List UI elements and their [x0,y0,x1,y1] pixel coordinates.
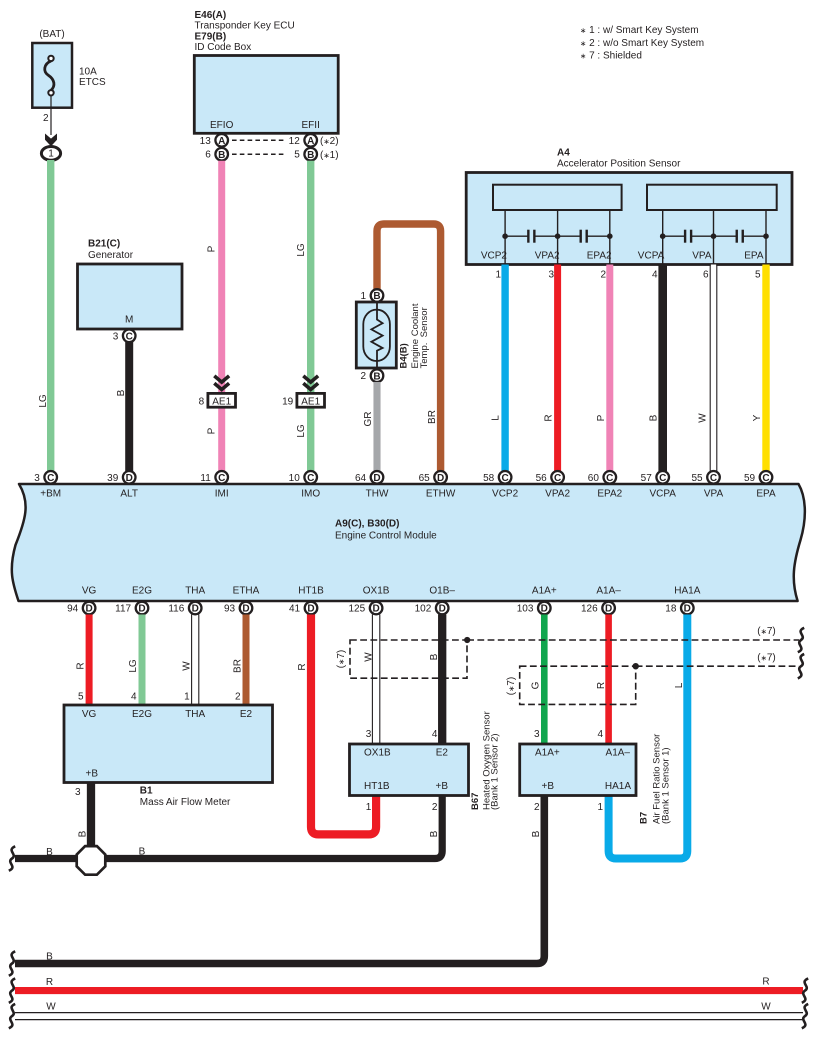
svg-text:Generator: Generator [88,250,134,261]
svg-text:Engine Control Module: Engine Control Module [335,531,437,542]
E46 pin 12(A) (*2) [289,134,317,147]
svg-text:5: 5 [78,692,84,703]
svg-text:125: 125 [349,604,366,615]
A4 Accelerator Position Sensor [466,148,792,265]
svg-text:OX1B: OX1B [364,748,391,759]
svg-text:64: 64 [355,473,367,484]
svg-text:B1: B1 [140,786,153,797]
wire R VG [86,615,93,706]
svg-text:B21(C): B21(C) [88,239,120,250]
svg-text:102: 102 [415,604,432,615]
svg-text:B: B [373,371,380,382]
wire R HT1B to B67 [311,615,376,835]
svg-text:B: B [139,847,146,858]
svg-text:93: 93 [224,604,236,615]
svg-text:BR: BR [232,659,243,673]
svg-text:3: 3 [548,270,554,281]
svg-text:65: 65 [419,473,431,484]
svg-text:Mass Air Flow Meter: Mass Air Flow Meter [140,797,231,808]
svg-text:3: 3 [366,729,372,740]
svg-text:57: 57 [641,473,653,484]
svg-text:GR: GR [363,412,374,427]
svg-text:VG: VG [82,586,97,597]
svg-text:(∗7): (∗7) [757,626,776,637]
svg-text:L: L [674,682,685,688]
svg-text:+B: +B [435,781,448,792]
ECM bottom pin 126(D) A1A&#8211; [581,586,621,615]
svg-text:60: 60 [588,473,600,484]
svg-text:A4: A4 [557,148,570,159]
A4 taps group 2 [660,210,769,265]
B21(C) Generator [78,239,183,330]
A4 pin names [481,251,764,262]
svg-text:1: 1 [366,802,372,813]
wire R VPA2 [554,265,561,472]
wire LG E2G [139,615,146,706]
svg-text:W: W [698,413,709,423]
break symbol right shield line 1 [798,628,804,652]
svg-text:56: 56 [536,473,548,484]
svg-text:19: 19 [282,396,294,407]
svg-text:Y: Y [752,414,763,421]
Engine Control Module A9(C),B30(D) band [12,484,805,601]
svg-text:58: 58 [483,473,495,484]
svg-text:3: 3 [534,729,540,740]
svg-text:D: D [242,604,249,615]
svg-text:R: R [596,682,607,689]
svg-text:D: D [126,473,133,484]
svg-text:D: D [541,604,548,615]
svg-text:B: B [307,150,314,161]
shield junction dot 2 [633,663,639,669]
svg-text:1: 1 [495,270,501,281]
ECM bottom pin 93(D) ETHA [224,586,260,615]
svg-text:A: A [218,136,225,147]
svg-text:(∗7): (∗7) [336,650,347,669]
svg-text:B: B [218,150,225,161]
svg-text:C: C [554,473,561,484]
svg-text:4: 4 [652,270,658,281]
wire BR B4 pin1 to ECM ETHW [377,224,441,472]
wire G A1A+ to B7 [541,615,548,745]
svg-text:O1B–: O1B– [429,586,455,597]
svg-text:E2G: E2G [132,586,152,597]
svg-text:IMI: IMI [215,489,229,500]
ECM bottom pin 103(D) A1A+ [517,586,557,615]
svg-text:4: 4 [131,692,137,703]
svg-text:(∗7): (∗7) [757,653,776,664]
wire R bottom bus [15,987,803,994]
shield dashed line 2 to right [636,665,799,667]
break symbol left R bus [9,978,15,1002]
svg-text:1: 1 [184,692,190,703]
svg-text:+BM: +BM [40,489,61,500]
svg-text:HA1A: HA1A [674,586,700,597]
svg-text:117: 117 [115,604,131,615]
wire R A1A- to B7 [605,615,612,745]
junction octagon [77,846,106,875]
svg-text:B: B [429,830,440,837]
svg-text:EPA: EPA [744,251,764,262]
svg-text:3: 3 [75,787,81,798]
B4 pin 2(B) [361,369,384,382]
svg-text:D: D [192,604,199,615]
svg-text:AE1: AE1 [212,396,231,407]
svg-text:ETCS: ETCS [79,77,106,88]
ECM top pin 3(C) +BM [34,471,61,500]
break symbol left W bus [9,1004,15,1028]
svg-text:D: D [437,473,444,484]
svg-text:VPA2: VPA2 [545,489,570,500]
svg-text:39: 39 [107,473,119,484]
svg-text:W: W [364,652,375,662]
B67 Heated Oxygen Sensor (Bank 1 Sensor 2) [350,711,501,813]
svg-text:EPA2: EPA2 [597,489,622,500]
svg-text:B: B [116,389,127,396]
shield (*7) box around G/R wires [520,666,636,704]
E46 pin 5(B) (*1) [294,148,317,161]
svg-text:VPA: VPA [692,251,712,262]
shield junction dot 1 [464,637,470,643]
svg-text:E2: E2 [436,748,449,759]
svg-text:W: W [181,661,192,671]
legend notes [580,25,704,61]
svg-text:EPA: EPA [756,489,776,500]
svg-text:A1A+: A1A+ [532,586,557,597]
svg-text:8: 8 [199,396,205,407]
break symbol right W bus [802,1004,808,1028]
svg-text:1: 1 [48,149,54,160]
E46 pin 13(A) [200,134,228,147]
wire B B7 +B to ground bus 2 [15,796,544,964]
svg-text:P: P [207,427,218,434]
ECM bottom pin 117(D) E2G [115,586,152,615]
ECM top pin 39(D) ALT [107,471,138,500]
svg-text:18: 18 [665,604,677,615]
svg-text:B: B [648,414,659,421]
svg-text:THW: THW [366,489,389,500]
svg-text:R: R [544,414,555,421]
wire W bottom bus [15,1013,803,1020]
ECM top pin 11(C) IMI [200,471,228,500]
ECM bottom pin 41(D) HT1B [289,586,324,615]
svg-text:Accelerator Position Sensor: Accelerator Position Sensor [557,159,681,170]
svg-text:P: P [207,245,218,252]
svg-text:2: 2 [361,371,367,382]
svg-text:(Bank 1 Sensor 2): (Bank 1 Sensor 2) [490,733,501,810]
svg-text:W: W [46,1002,56,1013]
svg-text:10A: 10A [79,67,97,78]
svg-text:2: 2 [432,802,438,813]
ECM bottom pin 102(D) O1B&#8211; [415,586,456,615]
svg-text:2: 2 [43,113,49,124]
ECM top pin 65(D) ETHW [419,471,456,500]
svg-text:E2G: E2G [132,709,152,720]
svg-text:B: B [46,847,53,858]
dashed link row A [232,139,287,141]
svg-text:6: 6 [703,270,709,281]
wire L VCP2 [501,265,508,472]
svg-text:C: C [501,473,508,484]
wire W THA [192,615,199,706]
svg-text:E2: E2 [240,709,253,720]
wire LG fuse to ECM +BM [47,160,54,472]
svg-text:EFIO: EFIO [210,120,234,131]
svg-text:D: D [373,473,380,484]
svg-text:EFII: EFII [302,120,320,131]
svg-text:ETHA: ETHA [233,586,260,597]
svg-text:B: B [531,830,542,837]
svg-text:Transponder Key ECU: Transponder Key ECU [195,21,295,32]
svg-text:EPA2: EPA2 [587,251,612,262]
svg-text:C: C [606,473,613,484]
svg-text:∗ 2 : w/o Smart Key System: ∗ 2 : w/o Smart Key System [580,38,704,49]
svg-text:(∗7): (∗7) [506,677,517,696]
svg-text:HA1A: HA1A [605,781,631,792]
ECM top pin 60(C) EPA2 [588,471,623,500]
svg-text:C: C [762,473,769,484]
ECM top pin 64(D) THW [355,471,389,500]
svg-text:(BAT): (BAT) [39,29,64,40]
B4(B) Engine Coolant Temp. Sensor [356,302,430,369]
ECM bottom pin 18(D) HA1A [665,586,700,615]
svg-text:2: 2 [534,802,540,813]
connector 8 AE1 [199,393,236,407]
svg-text:12: 12 [289,136,301,147]
svg-text:VCP2: VCP2 [481,251,508,262]
svg-text:D: D [138,604,145,615]
svg-text:(Bank 1 Sensor 1): (Bank 1 Sensor 1) [660,747,671,824]
ECM top pin 55(C) VPA [691,471,723,500]
svg-text:VPA: VPA [704,489,724,500]
svg-text:D: D [85,604,92,615]
svg-text:VPA2: VPA2 [535,251,560,262]
svg-text:HT1B: HT1B [298,586,324,597]
svg-text:ID Code Box: ID Code Box [195,42,252,53]
ECM bottom pin 94(D) VG [67,586,96,615]
svg-text:E46(A): E46(A) [195,10,227,21]
svg-text:(∗2): (∗2) [320,136,339,147]
svg-text:C: C [659,473,666,484]
svg-text:B4(B): B4(B) [398,343,409,368]
svg-text:W: W [761,1002,771,1013]
svg-text:5: 5 [294,150,300,161]
break symbol left bus2 [9,951,15,975]
svg-text:ETHW: ETHW [426,489,456,500]
ECM top pin 59(C) EPA [744,471,776,500]
svg-text:L: L [491,415,502,421]
ECM top pin 57(C) VCPA [641,471,677,500]
wire Y EPA [762,265,769,472]
break symbol right R bus [802,978,808,1002]
svg-text:2: 2 [235,692,241,703]
junction arrow chevron above AE1 (19) [303,376,318,390]
svg-text:C: C [307,473,314,484]
svg-text:BR: BR [427,410,438,424]
svg-text:41: 41 [289,604,301,615]
svg-text:R: R [762,977,769,988]
svg-text:3: 3 [113,331,119,342]
svg-text:C: C [710,473,717,484]
svg-text:55: 55 [691,473,703,484]
svg-text:A: A [307,136,314,147]
svg-text:2: 2 [600,270,606,281]
svg-text:4: 4 [597,729,603,740]
A4 taps group 1 [502,210,612,265]
svg-text:+B: +B [86,769,99,780]
break symbol right shield line 2 [798,654,804,678]
svg-text:A1A–: A1A– [596,586,621,597]
svg-text:D: D [439,604,446,615]
wire B ground bus via junction to B67 +B [15,796,442,859]
svg-text:3: 3 [34,473,40,484]
svg-text:B: B [46,952,53,963]
svg-text:B: B [429,653,440,660]
shield (*7) box around W/B wires [350,640,467,678]
svg-text:D: D [605,604,612,615]
node 1 ellipse [41,147,60,161]
svg-text:LG: LG [296,243,307,257]
ECM top pin 58(C) VCP2 [483,471,519,500]
svg-text:5: 5 [755,270,761,281]
svg-text:HT1B: HT1B [364,781,390,792]
svg-text:AE1: AE1 [301,396,320,407]
wire W VPA [710,265,717,472]
svg-text:1: 1 [597,802,603,813]
shield dashed line 1 to right [467,639,799,641]
svg-text:VG: VG [82,709,97,720]
svg-text:B: B [78,830,89,837]
svg-text:Temp. Sensor: Temp. Sensor [419,307,430,368]
svg-text:B67: B67 [470,793,481,810]
A4 pin numbers [495,270,761,281]
ECM top pin 56(C) VPA2 [536,471,571,500]
B4 pin 1(B) [361,289,384,302]
svg-text:(∗1): (∗1) [320,150,339,161]
svg-text:C: C [47,473,54,484]
svg-text:B7: B7 [639,812,650,824]
svg-text:THA: THA [185,709,205,720]
wire B VCPA [658,265,667,472]
svg-text:E79(B): E79(B) [195,31,227,42]
svg-text:D: D [307,604,314,615]
B7 Air Fuel Ratio Sensor (Bank 1 Sensor 1) [520,729,672,824]
wire P E46 EFIO to AE1 [218,161,225,394]
svg-text:B: B [373,291,380,302]
svg-text:OX1B: OX1B [363,586,390,597]
E46(A) Transponder Key ECU / E79(B) ID Code Box [194,10,338,133]
svg-text:+B: +B [542,781,555,792]
svg-text:LG: LG [38,394,49,408]
svg-text:4: 4 [432,729,438,740]
wire P AE1 to ECM IMI [218,406,225,472]
svg-text:13: 13 [200,136,212,147]
dashed link row B [232,153,287,155]
svg-text:M: M [125,315,133,326]
ECM bottom pin 116(D) THA [168,586,205,615]
wire GR B4 to ECM THW [373,382,380,472]
svg-text:126: 126 [581,604,598,615]
svg-text:A1A+: A1A+ [535,748,560,759]
svg-text:LG: LG [296,424,307,438]
connector 19 AE1 [282,393,324,407]
svg-text:THA: THA [185,586,205,597]
svg-text:1: 1 [361,291,367,302]
svg-text:A1A–: A1A– [606,748,631,759]
svg-text:D: D [684,604,691,615]
wire B B1 +B down to junction [87,783,95,859]
svg-text:11: 11 [200,473,211,484]
svg-text:P: P [596,414,607,421]
fuse 10A ETCS [32,29,106,135]
wire P EPA2 [606,265,613,472]
svg-text:C: C [218,473,225,484]
wire LG E46 EFII to ECM IMO [307,161,314,472]
svg-text:ALT: ALT [120,489,138,500]
svg-text:R: R [46,977,53,988]
break symbol left bus1 [9,846,15,870]
svg-text:10: 10 [289,473,301,484]
junction arrow chevron above AE1 (8) [214,376,229,390]
svg-text:C: C [126,331,133,342]
svg-text:G: G [531,681,542,689]
svg-text:VCPA: VCPA [649,489,676,500]
svg-text:∗ 1 : w/ Smart Key System: ∗ 1 : w/ Smart Key System [580,25,699,36]
wire B O1B- to B67 E2 [438,615,446,745]
svg-text:LG: LG [128,659,139,673]
svg-text:59: 59 [744,473,756,484]
wire W OX1B to B67 [372,615,379,745]
wire BR ETHA [243,615,250,706]
svg-text:VCPA: VCPA [638,251,665,262]
B21 pin 3(C) [113,330,136,343]
ECM bottom pin 125(D) OX1B [349,586,390,615]
ECM top pin 10(C) IMO [289,471,321,500]
wire B generator to ECM ALT [125,342,133,472]
svg-text:∗ 7 : Shielded: ∗ 7 : Shielded [580,50,642,61]
svg-text:6: 6 [205,150,211,161]
svg-text:116: 116 [168,604,184,615]
svg-text:IMO: IMO [301,489,320,500]
svg-text:R: R [297,663,308,670]
B1 Mass Air Flow Meter [64,692,273,808]
E46 pin 6(B) [205,148,228,161]
svg-text:R: R [75,662,86,669]
arrow into node 1 [45,134,57,147]
svg-text:94: 94 [67,604,79,615]
svg-text:103: 103 [517,604,534,615]
svg-text:VCP2: VCP2 [492,489,519,500]
wire L HA1A to B7 [609,615,688,859]
svg-text:A9(C), B30(D): A9(C), B30(D) [335,519,399,530]
svg-text:D: D [372,604,379,615]
